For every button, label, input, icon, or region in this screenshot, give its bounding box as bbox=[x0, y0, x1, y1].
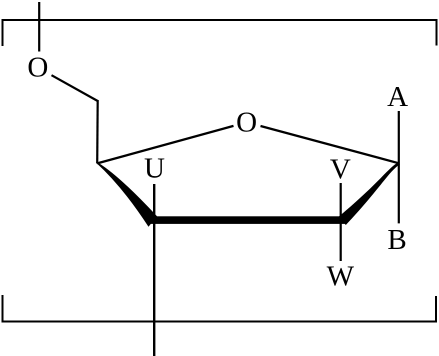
svg-text:W: W bbox=[327, 261, 355, 293]
bold bond C3-C2 bbox=[148, 216, 346, 224]
svg-text:V: V bbox=[330, 154, 351, 186]
svg-text:O: O bbox=[236, 107, 257, 139]
svg-text:B: B bbox=[387, 224, 406, 256]
svg-text:U: U bbox=[144, 152, 165, 184]
svg-text:A: A bbox=[387, 81, 408, 113]
bond V-W vertical bbox=[340, 183, 342, 261]
wedge bond C2-C1 bbox=[339, 162, 400, 225]
bond ring O-C1 bbox=[261, 126, 400, 163]
bond C5-C4 bbox=[96, 100, 99, 163]
bracket bottom bbox=[3, 295, 437, 322]
bond C4-ring O bbox=[97, 126, 233, 163]
bracket top bbox=[3, 20, 437, 46]
wedge bond C4-C3 bbox=[96, 163, 157, 227]
svg-text:O: O bbox=[27, 52, 48, 84]
bond O5-C5 bbox=[52, 75, 98, 101]
bond U substituent vertical bbox=[153, 184, 155, 356]
bond A-B vertical bbox=[398, 111, 400, 223]
tick mark on top bracket bbox=[38, 2, 40, 52]
